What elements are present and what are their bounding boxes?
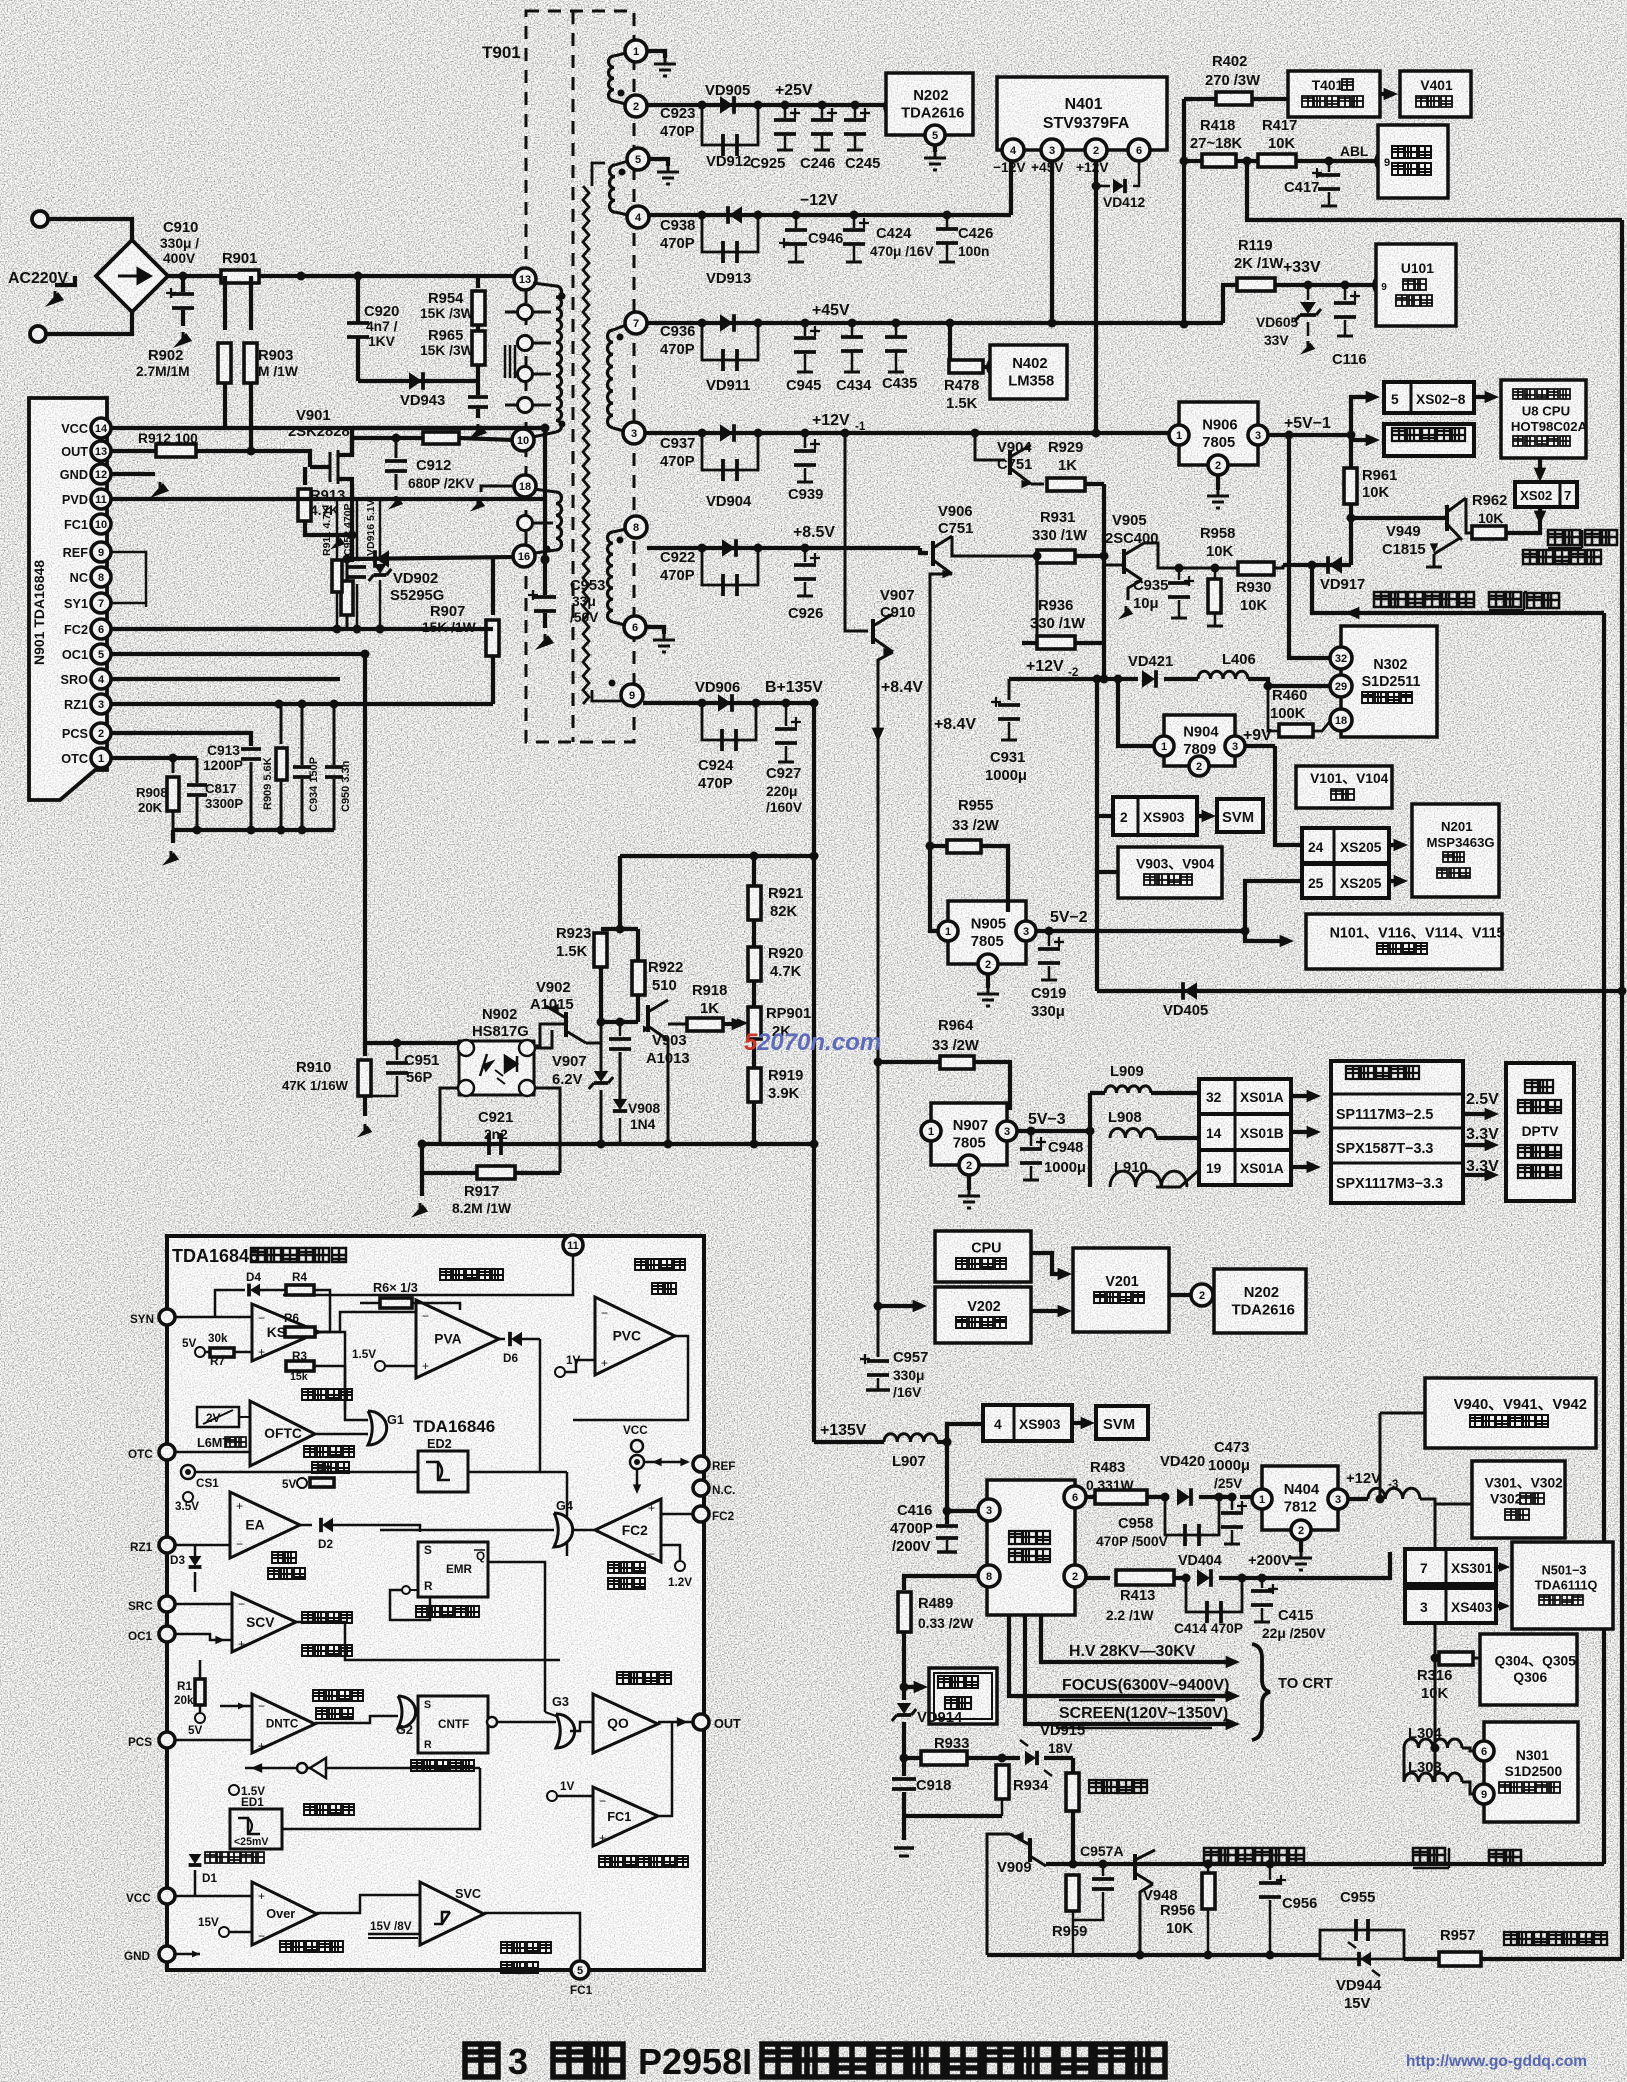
resistor R959 xyxy=(1066,1875,1079,1911)
inductor L910 xyxy=(1110,1171,1187,1187)
ground pin6 xyxy=(646,627,664,634)
resistor R957 xyxy=(1404,1957,1438,1961)
wire ED1 out xyxy=(282,1768,480,1829)
wire FBT pin2 row xyxy=(1085,1576,1110,1580)
wire arrows to N501 xyxy=(1496,1565,1502,1569)
resistor R933 xyxy=(900,1754,909,1763)
node pin3 xyxy=(1041,139,1063,161)
IC N905 7805 box xyxy=(948,901,1026,964)
node pin6 xyxy=(1128,139,1150,161)
wire +5V-1 xyxy=(1268,433,1351,437)
wire R936 node down to +12V-2 xyxy=(1102,645,1106,679)
connector XS301 box xyxy=(1405,1566,1435,1569)
resistor R917 xyxy=(477,1166,515,1179)
resistor R908 xyxy=(172,758,175,773)
wire FC1 QO link xyxy=(658,1722,672,1816)
wire +135V feed xyxy=(814,1440,884,1444)
wire caps bottom rail xyxy=(173,828,334,832)
capacitor C817 xyxy=(196,758,199,783)
wire +9V up to V101 bias and XS205 xyxy=(1275,746,1302,845)
wire +12V-1 row xyxy=(645,431,1169,435)
wire PCS rail to C913 xyxy=(111,733,251,746)
wire ABL feedback down and right xyxy=(1247,161,1622,220)
label error comparator 1 xyxy=(599,1856,688,1867)
capacitor C938 bypass xyxy=(702,215,758,252)
wire G3 to QO and output xyxy=(570,1722,593,1731)
capacitor C924 bypass xyxy=(702,703,756,740)
wire V949 collector to R962 xyxy=(1466,498,1472,533)
node CS1 xyxy=(181,1465,195,1479)
transformer secondary winding 8-6 xyxy=(625,516,647,538)
wire GND pin to ground xyxy=(111,472,155,476)
capacitor C245 xyxy=(854,105,857,118)
IC CPU box HOT98C02A xyxy=(1501,380,1586,458)
wire R901 to T901 pin13 xyxy=(259,274,516,278)
capacitor C913 xyxy=(241,749,261,759)
capacitor C434 xyxy=(851,323,854,336)
resistor R921 xyxy=(752,856,756,886)
IC N501-3 TDA6111Q box xyxy=(1512,1542,1613,1629)
diode VD405 xyxy=(1184,982,1197,1000)
wire +25V feed up to R402 line xyxy=(1182,99,1186,324)
wire V906 collector up xyxy=(952,536,1037,556)
transformer secondary to pin9 xyxy=(621,684,643,706)
capacitor C424 xyxy=(853,215,856,228)
resistor R930 xyxy=(1211,564,1220,573)
flyback transformer box xyxy=(987,1480,1075,1615)
wire XS02 down to switch label xyxy=(1538,507,1542,517)
wire arrow to keypad xyxy=(1351,438,1371,442)
resistor R958 body xyxy=(1238,562,1274,575)
wire VCC to Over xyxy=(175,1895,252,1898)
wire FC2 rail xyxy=(111,627,493,631)
ground xyxy=(45,292,64,307)
velocity modulation SVM box 2 xyxy=(1096,1406,1148,1439)
wire FBT pin8 to R489 xyxy=(904,1576,978,1590)
wire B+135V bus down left side xyxy=(812,703,816,1442)
capacitor C921 xyxy=(489,1133,501,1155)
wire SY1 stub xyxy=(111,602,146,605)
wire FC2 pin to comparator xyxy=(661,1513,693,1516)
transistor group box V301 V302 xyxy=(1472,1461,1565,1538)
digital board regulator box xyxy=(1331,1061,1463,1203)
wire pin18 stub to ground xyxy=(481,486,516,492)
label switch on/off xyxy=(1548,530,1580,545)
wire drain to T901 pin10 with snubber resistor xyxy=(352,438,423,455)
diode VD943 xyxy=(358,379,478,383)
label error amplifier xyxy=(272,1552,296,1563)
transformer secondary winding 1-2 xyxy=(625,40,647,62)
resistor R919 xyxy=(752,1039,756,1068)
wire FC2 out to G4 xyxy=(573,1529,595,1532)
box CPU mute control xyxy=(935,1231,1031,1282)
wire R958 to VD917 node xyxy=(1274,565,1283,568)
label 15V node xyxy=(219,1927,229,1937)
ground pin1 xyxy=(647,51,665,58)
wire OC1 rail to optocoupler column xyxy=(111,652,365,656)
wire branch to divider xyxy=(620,854,814,858)
resistor R316 xyxy=(1435,1657,1440,1660)
transistor V948 xyxy=(1133,1854,1137,1880)
diode VD404 xyxy=(1182,1574,1191,1583)
wire C918 bottom rail xyxy=(904,1814,1002,1818)
wire REF-NC bracket xyxy=(111,552,146,607)
capacitor C948 xyxy=(1027,1127,1036,1136)
wire VCC rail from N901 pin14 xyxy=(111,426,545,430)
IC N404 7812 box xyxy=(1262,1466,1338,1530)
bridge rectifier xyxy=(96,240,168,312)
wire +5V-1 branch down to N302 pin32 xyxy=(1289,435,1331,658)
wire XS02-8 to CPU box xyxy=(1474,395,1490,399)
diode VD944 15V xyxy=(1320,1955,1404,1959)
resistor R4 xyxy=(260,1289,285,1292)
connector XS403 box xyxy=(1405,1605,1435,1608)
label 1.5V xyxy=(229,1785,239,1795)
diode VD412 xyxy=(1096,185,1110,188)
resistor R912 on OUT rail xyxy=(111,449,156,453)
label time trigger xyxy=(411,1760,474,1771)
transformer primary winding 13-10 xyxy=(514,268,536,290)
node AC input top terminal xyxy=(32,211,48,227)
transistor V949 C1815 xyxy=(1347,514,1356,523)
wire V902 base from optocoupler xyxy=(534,1024,566,1046)
wire +12V-2 rail xyxy=(1009,677,1138,681)
inductor small after N404 xyxy=(1368,1488,1420,1499)
zener VD916 5.1V xyxy=(379,499,382,560)
diode VD905 xyxy=(720,96,733,114)
label overvoltage comparator xyxy=(280,1941,343,1952)
wire PVA feedback xyxy=(360,1302,380,1305)
capacitor C936 bypass xyxy=(702,323,758,360)
capacitor C927 xyxy=(785,703,788,726)
diode VD906 xyxy=(718,694,731,712)
label output voltage detect xyxy=(635,1259,685,1270)
geomagnetic correction box V940 V941 V942 xyxy=(1425,1378,1596,1448)
transistor V201 mute box xyxy=(1073,1248,1169,1332)
wire CNTF to G3 xyxy=(497,1721,556,1724)
resistor R934 xyxy=(998,1754,1007,1763)
node pin11 top xyxy=(563,1235,583,1255)
wire V906 emitter down xyxy=(930,574,952,846)
resistor R954 xyxy=(476,276,480,288)
diode D4 feedback xyxy=(215,1290,245,1317)
diode VD421 xyxy=(1142,670,1155,688)
wire opto pin1 to V902 base xyxy=(534,1030,552,1048)
node pin4 xyxy=(1002,139,1024,161)
capacitor C923 bypass xyxy=(702,105,758,145)
wire R929 node down xyxy=(1102,484,1106,645)
wire V901 source node xyxy=(350,500,354,535)
capacitor C935 xyxy=(1175,564,1184,573)
resistor R909 xyxy=(280,704,283,744)
pincushion circuit box V903 V904 xyxy=(1097,816,1118,872)
inductor L303 xyxy=(1434,1748,1437,1782)
capacitor C414 bypass xyxy=(1186,1578,1242,1612)
transformer secondary core zigzag xyxy=(583,186,589,704)
wire V940 box feed xyxy=(1380,1412,1425,1415)
node OUT pin right xyxy=(693,1714,709,1730)
capacitor C415 xyxy=(1258,1574,1267,1583)
gate G2 xyxy=(398,1696,416,1728)
wire SCV output xyxy=(296,1622,560,1660)
op-amp SCV xyxy=(232,1593,296,1652)
wire C921 row xyxy=(422,1142,754,1146)
wire 5V-3 splits to three chokes xyxy=(1086,1127,1095,1136)
label 1.5V input xyxy=(375,1361,385,1371)
transformer secondary winding 7-3 xyxy=(625,312,647,334)
ground low xyxy=(420,1173,424,1196)
resistor R955 xyxy=(930,844,947,848)
wire PVD rail xyxy=(111,497,545,501)
capacitor C910 xyxy=(181,276,185,292)
wire +8.5V row xyxy=(647,546,920,550)
inductor L406 xyxy=(1164,677,1198,681)
capacitor C958 bypass xyxy=(1165,1497,1219,1535)
wire arrows to N201 xyxy=(1389,843,1399,847)
capacitor C912 xyxy=(392,434,401,443)
inductor L304 xyxy=(1431,1744,1440,1753)
wire -12V up to N401 pin4 xyxy=(1009,158,1013,215)
resistor R903 xyxy=(249,276,253,330)
wire R902 lower to VCC rail xyxy=(223,383,227,428)
wire xyxy=(48,219,132,240)
wire ED2 to EMR column xyxy=(468,1471,567,1474)
zener VD915 18V xyxy=(1002,1756,1020,1760)
IC N201 MSP3463G box xyxy=(1412,804,1499,897)
wire SRO rail xyxy=(111,677,340,681)
capacitor C246 xyxy=(821,105,824,118)
wire V906 line to N905 input xyxy=(930,846,938,931)
wire V909 loop xyxy=(987,1834,1010,1955)
resistor R413 xyxy=(1116,1570,1174,1585)
flip-flop CNTF box xyxy=(418,1696,488,1753)
node NC pin right xyxy=(693,1480,709,1496)
capacitor C116 xyxy=(1341,281,1350,290)
diode D6 after PVA xyxy=(499,1338,505,1341)
label protect xyxy=(1527,593,1559,608)
velocity modulation SVM box xyxy=(1217,799,1263,832)
diode D2 xyxy=(300,1524,312,1527)
capacitor C918 xyxy=(902,1758,906,1776)
node AC input bottom terminal xyxy=(30,326,46,342)
wire V904 emitter to R929 xyxy=(1031,483,1044,486)
wire +12V-2 to N904 input xyxy=(1118,679,1154,746)
wire right-edge bus A xyxy=(1620,220,1624,1959)
capacitor C926 xyxy=(804,548,807,562)
label on-time comparator xyxy=(313,1690,363,1701)
label correction xyxy=(440,1269,503,1280)
resistor R489 xyxy=(898,1592,911,1632)
resistor R918 xyxy=(687,1018,723,1031)
capacitor C920 xyxy=(356,276,360,322)
transistor group box Q304 Q305 Q306 xyxy=(1480,1634,1577,1705)
transistor group box V101 V104 bias xyxy=(1296,766,1392,808)
gate G3 xyxy=(556,1714,575,1748)
wire pin2 +12V down xyxy=(1094,161,1098,433)
wire bridge output to R901 xyxy=(168,274,225,278)
vertical resistor R911 xyxy=(336,499,339,560)
capacitor C956 xyxy=(1266,1860,1275,1869)
ground pin5 xyxy=(649,159,668,166)
diode VD917 wire xyxy=(1283,563,1351,567)
wire -12V row xyxy=(647,213,1011,217)
connector XS205 pin24 box xyxy=(1302,828,1389,863)
capacitor C435 xyxy=(895,323,898,336)
wire PVC out down xyxy=(573,1336,688,1420)
resistor R922 xyxy=(632,961,645,995)
wire R965 junction xyxy=(476,325,480,331)
capacitor C951 xyxy=(396,1043,399,1060)
wire SYN to KSY xyxy=(175,1316,252,1319)
wire SVC output to FC1 bottom xyxy=(484,1913,580,1962)
gate G1 xyxy=(368,1411,387,1445)
resistor R936 xyxy=(1037,636,1075,649)
flip-flop EMR box xyxy=(418,1542,488,1597)
wire KSY/OFTC to G1 xyxy=(319,1332,368,1420)
IC U101 tuner box xyxy=(1374,275,1394,295)
diode VD902 S5295G xyxy=(352,557,514,559)
label protection shutdown control 2 xyxy=(1204,1848,1304,1863)
op-amp QO driver xyxy=(593,1694,658,1753)
wire riser to XS903 row xyxy=(1097,679,1113,816)
resistor R962 xyxy=(1472,526,1506,539)
wire +45V row xyxy=(647,321,1223,325)
transformer secondary winding 5-4 xyxy=(627,148,649,170)
capacitor C473 xyxy=(1228,1493,1237,1502)
IC N301 S1D2500 box xyxy=(1484,1722,1578,1822)
label error comparator 2 xyxy=(608,1562,645,1573)
diode D3 xyxy=(194,1545,197,1556)
wire to SVM xyxy=(1197,814,1207,818)
wire C416 node to FBT pin3 xyxy=(943,1507,952,1516)
label protect 2 xyxy=(1489,1850,1521,1865)
resistor on VD902 line to FC2 rail xyxy=(343,555,352,564)
resistor R956 xyxy=(1204,1860,1213,1869)
label supply voltage comparator xyxy=(501,1942,551,1953)
capacitor C955 loop xyxy=(1320,1930,1404,1959)
inductor L909 xyxy=(1090,1091,1105,1095)
label beam current protection xyxy=(1504,1932,1607,1945)
capacitor C953 xyxy=(543,428,547,595)
wire RZ1 rail xyxy=(111,702,493,706)
wire to SVM 2 xyxy=(1072,1421,1086,1425)
IC N302 S1D2511 box xyxy=(1341,626,1437,737)
wire SRC OC1 to SCV xyxy=(175,1603,232,1606)
capacitor across V903 base xyxy=(619,1022,622,1036)
capacitor C952 xyxy=(356,499,359,560)
resistor R961 xyxy=(1349,435,1353,468)
connector XS205 pin25 box xyxy=(1302,864,1389,898)
wire V902 emitter to R923 top rail xyxy=(586,1022,601,1043)
node REF pin right xyxy=(693,1456,709,1472)
label 1V node xyxy=(547,1791,557,1801)
wire arrow to V401 xyxy=(1380,92,1390,96)
IC TDA16846 internal diagram outline xyxy=(167,1236,704,1970)
wire +200V to video stage xyxy=(1250,1552,1390,1578)
wire bottom rail xyxy=(987,1953,1320,1957)
wire VD902 to C953 node xyxy=(541,556,550,565)
wire V905 emitter to ground xyxy=(1128,580,1142,600)
connector XS903 box 2 xyxy=(983,1405,1072,1441)
capacitor C417 xyxy=(1325,157,1334,166)
label control voltage xyxy=(302,1389,352,1400)
zener VD605 xyxy=(1304,281,1313,290)
diode D1 startup xyxy=(189,1854,202,1864)
transformer T901 dashed boundary xyxy=(526,11,634,742)
wire right-edge bus B xyxy=(1602,613,1606,1864)
ground of N906 xyxy=(1216,475,1220,490)
label off-time comparator xyxy=(304,1446,354,1457)
wire R119 to U101 xyxy=(1275,283,1374,287)
wire RZ1 to EA xyxy=(175,1544,230,1547)
wire CPU to XS02 connector xyxy=(1538,458,1542,474)
capacitor C925 xyxy=(784,105,787,118)
wire VCC rail to C953 xyxy=(352,426,545,430)
wire Over to SVC xyxy=(317,1895,420,1913)
capacitor C416 xyxy=(945,1442,949,1524)
wire N905 output 5V-2 xyxy=(1036,929,1245,933)
connector XS02 7 box xyxy=(1515,482,1577,507)
digital board DPTV box xyxy=(1506,1063,1574,1201)
wire +12V-3 bus down xyxy=(1434,1504,1437,1775)
connector XS01 block xyxy=(1199,1079,1291,1114)
ground flag near source xyxy=(330,538,345,550)
diode V908 1N4 xyxy=(619,1052,622,1100)
op-amp SVC hysteresis xyxy=(420,1882,484,1945)
connector XS903 box xyxy=(1113,797,1197,835)
diode VD912 xyxy=(729,206,742,224)
diode VD420 xyxy=(1161,1493,1170,1502)
wire pin11 riser xyxy=(283,1255,573,1295)
wire arrows XS01 to regulators xyxy=(1291,1094,1312,1098)
wire OUT rail xyxy=(196,451,310,467)
resistor R965 xyxy=(472,331,485,365)
wire N404 out +12V-3 xyxy=(1348,1497,1368,1501)
wire to CRT filament box xyxy=(900,1683,909,1692)
op-amp N401 STV9379FA box xyxy=(997,77,1167,150)
wire R931 left to V905 base region xyxy=(1036,556,1039,643)
op-amp KSY xyxy=(252,1304,319,1361)
wire protection line right xyxy=(1308,561,1317,570)
op-amp N202 TDA2616 box 2 xyxy=(1214,1269,1306,1333)
IF supply box N101 V116 V114 V115 xyxy=(1306,914,1502,969)
resistor R119 xyxy=(1223,285,1238,323)
wire divider top rail xyxy=(601,927,638,931)
capacitor C934 xyxy=(301,704,304,765)
op-amp Over xyxy=(252,1882,317,1945)
diode VD913 xyxy=(720,314,733,332)
resistor R3 15k xyxy=(286,1361,314,1371)
resistor R913 xyxy=(303,467,307,485)
resistor R418 xyxy=(1184,159,1202,163)
resistor R910 xyxy=(363,654,367,1056)
wire winding5 link xyxy=(592,163,605,186)
resistor R931 xyxy=(1037,550,1075,563)
wire +8.4V bus down to V202 and C957 xyxy=(874,1302,883,1311)
limiter 2V box xyxy=(197,1407,239,1427)
wire 5V-2 to XS205-25 and IF supply xyxy=(1241,927,1250,936)
node pin2 xyxy=(1085,139,1107,161)
IC N907 7805 box xyxy=(931,1103,1007,1165)
op-amp DNTC xyxy=(252,1694,315,1753)
label control voltage buffer xyxy=(302,1612,352,1623)
op-amp FC1 internal xyxy=(593,1787,658,1846)
wire protection rail xyxy=(1046,1862,1604,1866)
op-amp PVC xyxy=(595,1297,675,1375)
wire DNTC to G2 xyxy=(315,1716,398,1723)
ground xyxy=(171,830,175,843)
wire EMR connections xyxy=(566,1472,569,1556)
